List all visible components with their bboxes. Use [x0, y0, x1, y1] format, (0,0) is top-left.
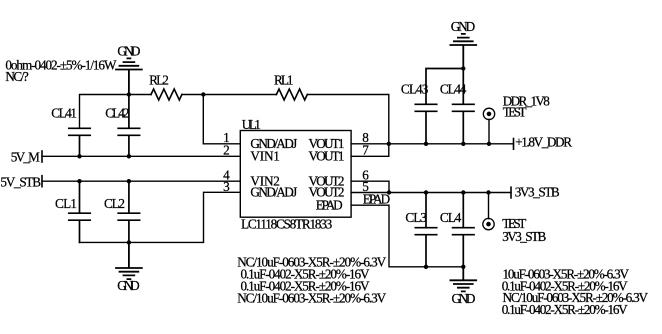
svg-text:CL41: CL41: [51, 105, 77, 120]
svg-text:GND: GND: [452, 291, 476, 306]
wire pin 3 to bottom-left rail: [80, 192, 241, 242]
junction CL2/5V_STB: [127, 179, 131, 183]
capacitor CL2: [118, 181, 139, 242]
wire EPAD to bottom-right rail: [351, 205, 463, 267]
wire pin 6 stub: [351, 181, 389, 192]
net tick 5V_M: [41, 151, 43, 162]
wire RL1 to VOUT1 corner: [307, 95, 389, 144]
svg-text:EPAD: EPAD: [316, 197, 343, 212]
junction CL1/5V_STB: [77, 179, 81, 183]
junction CL3/3V3: [424, 190, 428, 194]
wire pin 1 from RL junction: [203, 95, 240, 144]
svg-text:7: 7: [362, 143, 369, 158]
svg-text:3V3_STB: 3V3_STB: [502, 229, 546, 244]
svg-text:3: 3: [223, 179, 230, 194]
junction TP DDR/+1.8V: [487, 142, 491, 146]
svg-text:CL4: CL4: [440, 210, 462, 225]
capacitor CL41: [69, 128, 90, 156]
svg-text:GND: GND: [117, 44, 140, 59]
svg-text:UL1: UL1: [242, 117, 261, 132]
capacitor CL44: [453, 69, 474, 144]
net tick 5V_STB: [41, 176, 43, 187]
junction CL43/+1.8V: [424, 142, 428, 146]
capacitor CL4: [453, 193, 474, 267]
junction top GND/CL42: [127, 92, 131, 96]
net tick 3V3_STB: [510, 187, 512, 198]
svg-text:+1.8V_DDR: +1.8V_DDR: [515, 135, 572, 150]
svg-text:CL44: CL44: [440, 81, 467, 96]
resistor RL1: [276, 89, 307, 100]
op-amp U1 body UL1: [240, 131, 351, 218]
resistor RL2: [151, 89, 182, 100]
svg-text:CL1: CL1: [55, 196, 77, 211]
svg-text:VIN1: VIN1: [250, 149, 280, 164]
junction CL42/5V_M: [127, 154, 131, 158]
junction RL2/RL1/pin1: [201, 92, 205, 96]
svg-text:EPAD: EPAD: [363, 192, 390, 207]
junction CL4/bottom-right rail: [461, 265, 465, 269]
wire RL2 to RL1: [182, 94, 277, 96]
junction CL43 top: [461, 66, 465, 70]
svg-text:TEST: TEST: [503, 104, 527, 119]
wire top rail left (CL41 top to RL2): [80, 95, 152, 129]
wire pin 8 stub: [351, 143, 389, 145]
test point 3V3_STB: [483, 218, 494, 229]
svg-text:VOUT1: VOUT1: [309, 149, 345, 164]
capacitor CL43: [415, 69, 463, 144]
svg-text:CL2: CL2: [104, 196, 125, 211]
junction CL3/bottom-right rail: [424, 265, 428, 269]
svg-text:CL42: CL42: [105, 105, 129, 120]
test point 3V3 inner dot: [486, 222, 491, 227]
ground bottom-right: [450, 267, 476, 292]
svg-text:LC1118CS8TR1833: LC1118CS8TR1833: [241, 217, 333, 232]
junction CL41/5V_M: [77, 154, 81, 158]
capacitor CL42: [118, 95, 139, 157]
svg-text:3V3_STB: 3V3_STB: [515, 184, 560, 199]
svg-text:RL2: RL2: [149, 73, 169, 88]
ground top-right (flipped): [450, 34, 476, 69]
wire pin 7 stub: [351, 144, 389, 157]
test point DDR inner dot: [487, 112, 492, 117]
svg-text:2: 2: [223, 143, 230, 158]
ground bottom-left: [116, 242, 142, 279]
svg-text:GND: GND: [451, 19, 475, 34]
wire 3V3_STB net: [389, 192, 511, 194]
junction CL4/3V3: [461, 190, 465, 194]
wire test point DDR_1V8 stem: [488, 119, 490, 144]
svg-text:RL1: RL1: [274, 73, 294, 88]
test point DDR_1V8: [483, 108, 494, 119]
junction pin8/pin7: [387, 142, 391, 146]
wire +1.8V_DDR net: [389, 143, 514, 145]
svg-text:NC/?: NC/?: [5, 69, 28, 84]
wire test point 3V3_STB stem: [488, 193, 490, 219]
svg-text:0.1uF-0402-X5R-±20%-16V: 0.1uF-0402-X5R-±20%-16V: [502, 302, 628, 317]
svg-text:5V_STB: 5V_STB: [0, 175, 41, 190]
capacitor CL3: [415, 193, 436, 267]
svg-text:NC/10uF-0603-X5R-±20%-6.3V: NC/10uF-0603-X5R-±20%-6.3V: [237, 291, 386, 306]
junction CL2/bottom rail: [127, 240, 131, 244]
svg-text:CL3: CL3: [405, 210, 427, 225]
net tick +1.8V_DDR: [513, 139, 515, 150]
svg-text:GND/ADJ: GND/ADJ: [250, 185, 297, 200]
junction CL44/+1.8V: [461, 142, 465, 146]
junction TP 3V3: [486, 190, 490, 194]
svg-text:GND: GND: [117, 278, 139, 293]
svg-text:CL43: CL43: [401, 81, 429, 96]
capacitor CL1: [69, 181, 90, 242]
svg-text:5V_M: 5V_M: [11, 150, 40, 165]
ground top-left (flipped): [116, 58, 142, 94]
junction pin5/pin6: [387, 190, 391, 194]
wire 5V_M rail to pin 2: [42, 155, 240, 157]
wire 5V_STB rail to pin 4: [42, 180, 240, 182]
wire pin 5 stub: [351, 192, 389, 194]
